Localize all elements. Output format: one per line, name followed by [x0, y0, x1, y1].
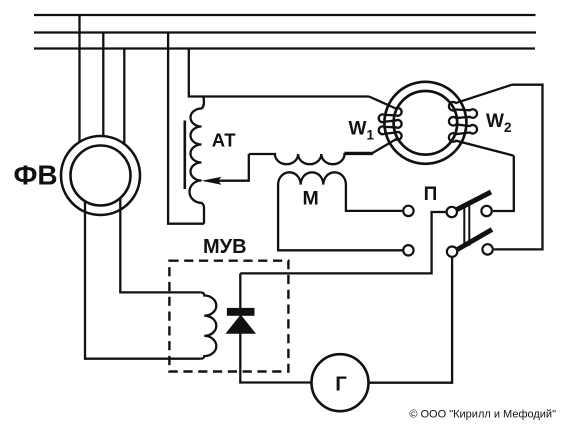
- toroidal core inner circle: [394, 91, 458, 155]
- switch П right-bottom contact: [482, 244, 492, 254]
- svg-text:Г: Г: [335, 372, 347, 395]
- svg-text:П: П: [424, 184, 438, 205]
- wire L2 to ФВ: [102, 33, 104, 137]
- switch П right-top contact: [481, 206, 491, 216]
- wire switch mid-bottom contact to generator Г: [369, 258, 452, 383]
- wire W2 top to switch right-bottom contact: [494, 85, 543, 250]
- svg-text:W2: W2: [486, 111, 511, 135]
- svg-text:М: М: [303, 188, 319, 210]
- autotransformer АТ winding: [190, 97, 205, 224]
- МУВ dashed enclosure: [169, 261, 288, 372]
- phase shifter ФВ inner circle: [71, 146, 131, 206]
- diode VD cathode bar: [227, 308, 255, 316]
- autotransformer АТ core bar: [184, 121, 187, 190]
- АТ wiper arrow head: [201, 177, 221, 185]
- coupling winding over М: [249, 154, 373, 164]
- МУВ control winding: [201, 292, 217, 358]
- switch П mid-top contact: [447, 207, 457, 217]
- switch П mechanical link: [463, 204, 465, 246]
- wire ФВ to МУВ winding bottom lead: [85, 201, 201, 359]
- motor winding М with leads to П contacts: [278, 172, 402, 250]
- svg-text:ФВ: ФВ: [14, 159, 58, 190]
- switch П mid-bottom contact: [447, 247, 457, 257]
- wire W2 bottom to switch right-top contact: [493, 156, 514, 211]
- switch П left-bottom contact: [403, 245, 413, 255]
- switch П top blade: [456, 192, 491, 210]
- wire L1 to ФВ: [78, 15, 80, 142]
- bus line L1: [34, 14, 536, 16]
- generator Г circle: [312, 354, 369, 411]
- phase shifter ФВ outer circle: [61, 136, 140, 215]
- toroidal core outer circle: [384, 82, 466, 164]
- wire L3 to АТ top: [189, 49, 369, 97]
- wire L2 to АТ bottom: [168, 33, 204, 224]
- wire L3 to ФВ: [123, 49, 125, 145]
- diode VD triangle: [225, 315, 256, 334]
- bus line L3: [34, 47, 535, 49]
- diode VD anode lead to generator Г: [240, 333, 310, 383]
- diode VD cathode lead: [239, 273, 241, 308]
- winding W2 on toroid: [449, 85, 514, 156]
- svg-text:МУВ: МУВ: [203, 236, 247, 258]
- switch П left-top contact: [403, 206, 413, 216]
- wire ФВ to МУВ winding top lead: [120, 199, 201, 293]
- svg-text:© ООО "Кирилл и Мефодий": © ООО "Кирилл и Мефодий": [409, 409, 556, 421]
- wire switch mid-top contact to diode cathode: [240, 212, 445, 273]
- bus line L2: [34, 31, 536, 33]
- wire АТ wiper to coupling winding: [216, 154, 249, 181]
- svg-text:W1: W1: [349, 119, 375, 143]
- winding W1 on toroid: [345, 97, 402, 153]
- switch П bottom blade: [457, 230, 493, 251]
- svg-text:АТ: АТ: [212, 129, 236, 150]
